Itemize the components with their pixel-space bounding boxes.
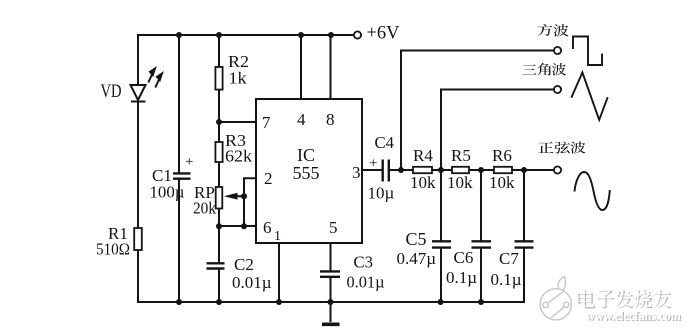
svg-text:4: 4 — [297, 110, 306, 129]
svg-text:7: 7 — [262, 113, 271, 132]
svg-text:C7: C7 — [499, 249, 519, 268]
svg-text:C4: C4 — [375, 133, 395, 152]
svg-text:+: + — [369, 156, 377, 172]
wire: +6V top rail — [138, 34, 353, 36]
wire: pin 6 lead — [219, 225, 256, 227]
node triangle-wave label (san jiao bo) — [522, 65, 536, 75]
resistor R3 — [215, 142, 222, 162]
terminal triangle wave — [554, 86, 561, 93]
svg-text:0.47µ: 0.47µ — [397, 249, 437, 268]
wire: pin 4 lead — [300, 35, 302, 99]
sine wave symbol — [575, 172, 610, 210]
resistor R2 — [215, 67, 222, 90]
svg-text:0.01µ: 0.01µ — [347, 273, 385, 292]
svg-text:C3: C3 — [354, 253, 374, 272]
svg-text:R4: R4 — [413, 146, 433, 165]
svg-text:62k: 62k — [225, 147, 253, 166]
svg-text:R6: R6 — [492, 146, 512, 165]
node square-wave label (fang bo) — [537, 24, 552, 36]
svg-text:6: 6 — [263, 218, 272, 237]
LED VD emission arrows — [148, 69, 162, 88]
watermark text 电子发烧友 — [579, 290, 596, 308]
potentiometer RP — [216, 187, 223, 209]
svg-text:1: 1 — [274, 229, 281, 244]
svg-text:10k: 10k — [489, 173, 515, 192]
node sine-wave label (zheng xian bo) — [538, 142, 553, 153]
capacitor C2 — [207, 263, 225, 268]
wire: C6 column — [480, 170, 482, 302]
wire: C1 column — [178, 35, 180, 302]
triangle wave symbol — [571, 73, 607, 120]
wire: pin 7 lead — [219, 121, 256, 123]
wire: pin 2 lead — [244, 178, 256, 226]
svg-text:0.01µ: 0.01µ — [232, 273, 272, 292]
capacitor C6 — [472, 241, 492, 247]
svg-text:510Ω: 510Ω — [96, 240, 130, 259]
wire: pin 5 / C3 column — [330, 243, 332, 302]
svg-text:10k: 10k — [447, 173, 473, 192]
svg-text:0.1µ: 0.1µ — [446, 268, 477, 287]
svg-text:10k: 10k — [410, 173, 436, 192]
capacitor C5 — [432, 241, 451, 247]
wire: pin 8 lead — [330, 35, 332, 99]
svg-text:555: 555 — [293, 163, 320, 183]
op IC U1 555 box — [256, 99, 362, 243]
capacitor C4 (electrolytic, coupling) — [383, 160, 389, 182]
wire: pin 1 lead — [278, 243, 280, 302]
wire: pin 3 lead to C4 — [362, 169, 381, 171]
wire: R2/R3/RP/C2 column — [218, 35, 220, 302]
svg-text:+6V: +6V — [367, 23, 400, 44]
svg-text:1k: 1k — [229, 69, 248, 88]
svg-text:100µ: 100µ — [150, 183, 185, 202]
wire: output row with R4 R5 R6 — [390, 169, 554, 171]
capacitor C7 — [515, 241, 534, 247]
resistor R5 — [452, 167, 469, 173]
wire: triangle-wave tap / C5 column — [441, 90, 554, 303]
svg-text:20k: 20k — [193, 199, 216, 218]
LED VD — [131, 85, 146, 102]
svg-text:IC: IC — [297, 145, 315, 165]
svg-text:C6: C6 — [454, 248, 474, 267]
svg-text:VD: VD — [101, 81, 122, 102]
wire: bottom ground rail — [138, 301, 524, 303]
terminal square wave — [554, 47, 561, 54]
watermark logo circle — [540, 277, 571, 320]
resistor R4 — [413, 167, 432, 173]
svg-text:C2: C2 — [234, 255, 254, 274]
svg-text:www.elecfans.com: www.elecfans.com — [586, 309, 681, 323]
wire: C7 column — [523, 170, 525, 302]
capacitor C3 — [320, 271, 340, 276]
wire: square-wave tap — [401, 51, 554, 171]
svg-text:C5: C5 — [406, 229, 427, 249]
capacitor C1 (electrolytic) — [173, 173, 191, 178]
resistor R1 — [134, 228, 142, 250]
svg-text:3: 3 — [352, 163, 361, 182]
wire: left column (VD / R1 branch) — [137, 35, 139, 302]
svg-text:10µ: 10µ — [368, 184, 395, 203]
svg-text:2: 2 — [264, 169, 273, 188]
terminal sine wave — [554, 166, 561, 173]
svg-text:8: 8 — [326, 110, 335, 129]
svg-text:+: + — [185, 154, 193, 170]
resistor R6 — [494, 167, 512, 173]
svg-text:0.1µ: 0.1µ — [491, 270, 522, 289]
svg-text:5: 5 — [329, 218, 338, 237]
terminal +6V — [354, 31, 361, 38]
ground symbol — [330, 302, 332, 322]
square wave symbol — [573, 37, 602, 66]
svg-text:R5: R5 — [451, 146, 471, 165]
